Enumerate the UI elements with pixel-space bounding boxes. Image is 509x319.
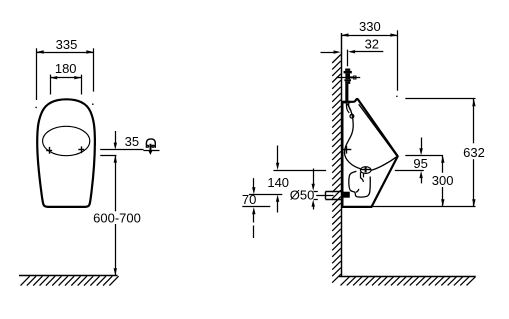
svg-text:632: 632 <box>463 145 485 160</box>
svg-text:70: 70 <box>242 192 256 207</box>
svg-text:32: 32 <box>365 36 379 51</box>
svg-text:95: 95 <box>413 156 427 171</box>
svg-text:335: 335 <box>56 37 78 52</box>
svg-text:Ø50: Ø50 <box>290 187 315 202</box>
svg-text:300: 300 <box>432 173 454 188</box>
svg-text:600-700: 600-700 <box>93 211 141 226</box>
svg-text:330: 330 <box>359 19 381 34</box>
svg-text:180: 180 <box>55 61 77 76</box>
svg-text:35: 35 <box>125 134 139 149</box>
svg-text:140: 140 <box>267 175 289 190</box>
